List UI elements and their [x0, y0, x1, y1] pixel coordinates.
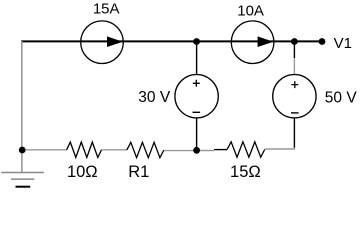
svg-text:V1: V1	[334, 35, 352, 52]
svg-text:R1: R1	[128, 163, 149, 181]
voltage source 30V circle	[175, 75, 218, 118]
resistor 10ohm zigzag	[67, 142, 102, 157]
node terminal dot V1	[319, 38, 326, 45]
svg-text:10Ω: 10Ω	[67, 163, 98, 181]
wire bottom: R1 to bottom-center dot	[164, 150, 197, 152]
ground bar 3	[16, 186, 31, 188]
voltage source 30V plus sign	[193, 80, 200, 87]
node junction dot bottom-left	[19, 147, 26, 154]
wire vertical top junction to 30V source	[196, 43, 198, 75]
wire vertical 30V source to bottom junction	[196, 118, 198, 150]
ground bar 2	[11, 178, 34, 180]
wire corner gray 50V to 15ohm	[265, 148, 295, 150]
wire bottom: lead into 15ohm (black part)	[214, 149, 227, 151]
svg-text:10A: 10A	[237, 2, 264, 19]
svg-text:30 V: 30 V	[138, 89, 171, 106]
wire vertical 50V source down (black lead)	[293, 118, 295, 148]
wire bottom: dot to 10ohm	[22, 149, 66, 151]
wire vertical to 50V source (gray part)	[293, 58, 295, 75]
node junction dot top-right	[291, 38, 298, 45]
resistor 15ohm zigzag	[227, 142, 265, 157]
wire top horizontal	[21, 40, 322, 42]
voltage source 30V minus sign	[193, 111, 201, 113]
current source 15A circle	[81, 21, 124, 64]
wire ground vertical stub	[21, 150, 23, 173]
wire bottom: 10ohm to R1	[102, 149, 127, 151]
voltage source 50V plus sign	[291, 81, 298, 88]
ground bar 1	[1, 172, 44, 174]
svg-text:50 V: 50 V	[325, 89, 358, 106]
voltage source 50V minus sign	[291, 112, 299, 114]
wire bottom: dot to 15ohm (gray part)	[197, 150, 214, 152]
current source 15A arrow	[107, 36, 123, 47]
svg-text:15A: 15A	[93, 1, 120, 18]
wire left vertical	[21, 41, 23, 150]
current source 10A arrow	[258, 36, 274, 47]
svg-text:15Ω: 15Ω	[230, 163, 261, 181]
wire vertical top junction to 50V source (black part)	[293, 43, 295, 58]
current source 10A circle	[231, 21, 274, 64]
node junction dot top-center	[193, 38, 200, 45]
voltage source 50V circle	[273, 75, 316, 118]
node junction dot bottom-center	[193, 147, 200, 154]
resistor R1 zigzag	[127, 142, 164, 157]
